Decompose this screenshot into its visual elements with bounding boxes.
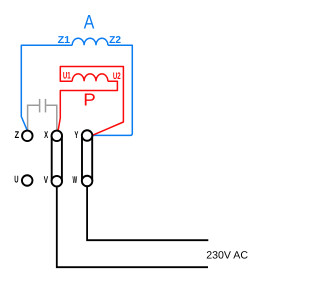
svg-text:Y: Y xyxy=(74,130,78,141)
svg-text:Z: Z xyxy=(15,130,20,141)
svg-text:Z1: Z1 xyxy=(58,35,71,46)
capacitor C left plate xyxy=(39,99,41,113)
wire terminal Z up to node Z1 (blue) xyxy=(21,45,72,131)
terminal U xyxy=(22,175,33,186)
terminal X xyxy=(52,131,63,142)
wire terminal W down and right to 230V AC line (black) xyxy=(87,186,208,240)
svg-text:U1: U1 xyxy=(63,71,71,82)
link bar X-V (black) xyxy=(52,136,62,181)
svg-text:W: W xyxy=(73,175,78,186)
svg-text:U2: U2 xyxy=(113,71,121,82)
inductor coil A between Z1 and Z2 (blue, 3 loops) xyxy=(72,38,108,45)
inductor coil P between U1 and U2 (red, 3 loops) xyxy=(72,74,108,81)
terminal Z xyxy=(22,131,33,142)
capacitor C left lead (gray wire to terminal Z) xyxy=(28,105,39,130)
wire node Z2 down to terminal Y (blue) xyxy=(93,45,132,135)
wire terminal X up through node U2 hook (red) xyxy=(58,81,117,130)
capacitor C right plate xyxy=(45,99,47,113)
svg-text:230V AC: 230V AC xyxy=(206,250,248,262)
terminal Y xyxy=(82,130,93,141)
svg-text:X: X xyxy=(44,130,48,141)
capacitor C right lead (gray wire to terminal X) xyxy=(46,105,57,130)
wire terminal V down and right to 230V AC line (black) xyxy=(57,187,208,267)
svg-text:U: U xyxy=(14,175,18,186)
svg-text:P: P xyxy=(83,90,96,110)
link bar Y-W (black) xyxy=(82,136,92,182)
terminal W xyxy=(82,176,93,187)
wire node U1 around winding frame down to terminal Y (red) xyxy=(60,67,123,136)
svg-text:A: A xyxy=(84,11,95,33)
svg-text:Z2: Z2 xyxy=(109,35,121,46)
terminal V xyxy=(52,176,63,187)
svg-text:V: V xyxy=(44,175,49,186)
